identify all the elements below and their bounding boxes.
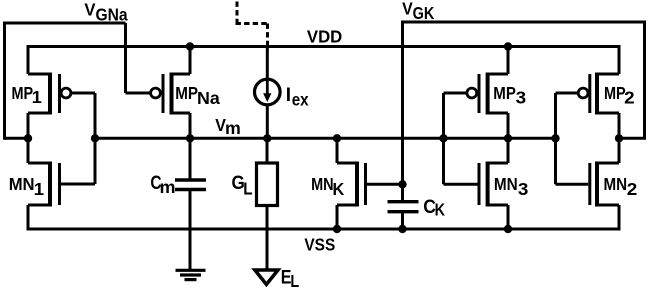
svg-text:MP: MP bbox=[175, 83, 198, 103]
svg-text:L: L bbox=[290, 271, 299, 290]
svg-text:I: I bbox=[286, 85, 291, 106]
svg-text:1: 1 bbox=[34, 179, 45, 199]
svg-text:GK: GK bbox=[413, 3, 435, 23]
svg-text:MP: MP bbox=[12, 83, 34, 103]
svg-text:MN: MN bbox=[604, 174, 628, 194]
svg-text:2: 2 bbox=[624, 87, 635, 107]
svg-text:VDD: VDD bbox=[307, 27, 342, 47]
svg-text:MN: MN bbox=[9, 174, 35, 194]
svg-text:L: L bbox=[243, 179, 252, 199]
svg-text:GNa: GNa bbox=[96, 5, 128, 25]
svg-text:ex: ex bbox=[292, 89, 309, 109]
svg-text:2: 2 bbox=[627, 179, 638, 199]
svg-text:m: m bbox=[225, 118, 241, 138]
svg-text:MP: MP bbox=[604, 83, 626, 103]
svg-text:3: 3 bbox=[518, 179, 529, 199]
svg-text:MP: MP bbox=[493, 83, 516, 103]
svg-text:V: V bbox=[84, 0, 96, 19]
svg-text:m: m bbox=[160, 177, 176, 197]
svg-text:K: K bbox=[333, 179, 345, 199]
svg-text:V: V bbox=[402, 0, 413, 19]
svg-text:Na: Na bbox=[197, 88, 220, 108]
svg-text:MN: MN bbox=[494, 174, 518, 194]
svg-text:1: 1 bbox=[32, 87, 43, 107]
svg-text:3: 3 bbox=[516, 87, 527, 107]
svg-text:VSS: VSS bbox=[304, 235, 335, 255]
svg-text:K: K bbox=[435, 199, 446, 219]
svg-text:MN: MN bbox=[311, 174, 334, 194]
